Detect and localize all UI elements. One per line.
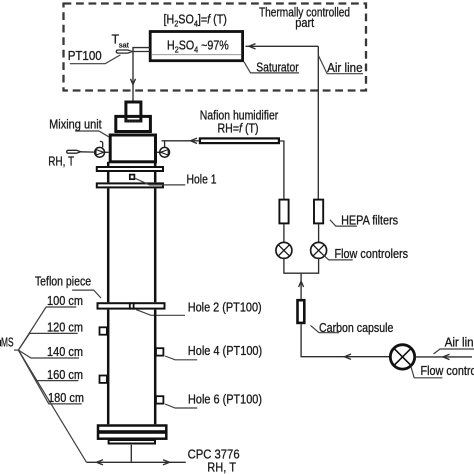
svg-text:Carbon capsule: Carbon capsule — [319, 321, 393, 335]
teflon piece flange (hole 2) — [98, 302, 165, 309]
wire bottom sampling line with arrows — [87, 460, 186, 465]
wire saturator outlet to mixing unit — [131, 48, 151, 101]
svg-text:Hole 6 (PT100): Hole 6 (PT100) — [188, 393, 262, 407]
svg-text:180 cm: 180 cm — [48, 391, 84, 405]
wire air line from right into saturator — [246, 44, 319, 49]
bottom flange assembly — [98, 426, 166, 444]
wire CPC outlet — [130, 445, 132, 463]
label Flow controlers with leader — [322, 247, 408, 261]
svg-text:160 cm: 160 cm — [47, 368, 83, 382]
flow controller 1 (circle-X) — [276, 242, 292, 258]
svg-text:Flow controlers: Flow controlers — [335, 247, 409, 261]
label PT100 with leader — [68, 49, 121, 64]
HEPA filter 2 — [314, 200, 323, 224]
mixing unit top cap — [126, 102, 141, 121]
svg-text:PT100: PT100 — [68, 49, 102, 63]
wire HEPA2 to flow controller 2 — [318, 224, 320, 243]
svg-text:CPC 3776: CPC 3776 — [188, 448, 240, 462]
label HEPA filters with leader — [330, 214, 398, 228]
label Hole 4 (PT100) with leader — [165, 344, 262, 360]
MS fan: vertex and leaders to distance marks — [14, 307, 87, 462]
saturator box — [150, 32, 242, 61]
wire air line inlet (bottom right) — [415, 354, 472, 359]
svg-text:RH, T: RH, T — [48, 155, 74, 169]
hole 4 square (right) — [156, 348, 163, 355]
wire probe stem into saturator — [132, 51, 150, 53]
left port valve circle — [95, 141, 109, 157]
svg-text:MS: MS — [1, 335, 14, 349]
flow controller 2 (circle-X) — [311, 242, 327, 258]
label Flow controlers (bottom) with leader — [411, 364, 474, 378]
label [H2SO4]=f(T) — [164, 13, 227, 29]
svg-text:RH=f (T): RH=f (T) — [218, 122, 259, 136]
svg-text:Saturator: Saturator — [256, 60, 299, 74]
RH,T probe (left) — [67, 150, 95, 153]
wire carbon capsule to main flow controller — [301, 324, 390, 359]
tube walls upper section — [108, 188, 155, 302]
wire air line vertical down to HEPA filter — [317, 46, 319, 198]
svg-text:Nafion humidifier: Nafion humidifier — [200, 109, 278, 123]
svg-text:sat: sat — [119, 40, 130, 49]
svg-text:part: part — [295, 16, 314, 30]
flange 1 (top of tube) — [97, 167, 163, 171]
mixing unit upper box — [116, 116, 151, 131]
tube walls lower section — [108, 310, 155, 425]
right port valve circle — [157, 141, 170, 157]
svg-text:Hole 2 (PT100): Hole 2 (PT100) — [188, 301, 262, 315]
wire merge from flow controllers — [284, 258, 319, 299]
hole 5 square (left) — [100, 376, 107, 383]
tube wall stubs between body and flange1 — [108, 162, 155, 166]
frit mesh strip — [126, 120, 141, 123]
letter fragment at left edge — [0, 340, 1, 347]
main flow controller (circle-X) — [390, 345, 414, 369]
Tsat probe — [116, 50, 132, 53]
svg-text:Flow controlers: Flow controlers — [421, 364, 474, 378]
flange 2 — [97, 183, 163, 187]
svg-text:Air line: Air line — [327, 61, 363, 75]
label H2SO4 ~97% — [167, 39, 229, 55]
label Nafion humidifier — [200, 109, 278, 136]
svg-text:100 cm: 100 cm — [47, 294, 83, 308]
mixing unit body — [110, 135, 155, 162]
carbon capsule — [298, 300, 305, 323]
hole 1 square — [130, 175, 135, 180]
svg-text:Air line: Air line — [445, 336, 474, 350]
svg-text:Mixing unit: Mixing unit — [49, 118, 102, 132]
label CPC 3776 / RH, T — [188, 448, 240, 474]
label Hole 6 (PT100) with leader — [165, 393, 262, 409]
svg-text:Teflon piece: Teflon piece — [35, 274, 91, 288]
label Saturator with leader — [244, 60, 299, 74]
hole 6 square (right) — [156, 396, 163, 403]
HEPA filter 1 — [279, 200, 288, 224]
label Teflon piece with leader — [35, 274, 101, 298]
label Hole 1 with leader — [134, 172, 216, 186]
svg-text:Hole 4 (PT100): Hole 4 (PT100) — [188, 344, 262, 358]
wire humidifier right end down to HEPA filter — [280, 141, 284, 199]
wire humidifier to mixing unit with arrow — [162, 138, 199, 143]
svg-text:120 cm: 120 cm — [47, 321, 83, 335]
label Thermally controlled part — [259, 6, 350, 30]
tube wall stubs between flanges — [108, 172, 155, 182]
wire HEPA1 to flow controller 1 — [283, 224, 285, 243]
hole 3 square (left) — [100, 327, 107, 334]
Nafion humidifier bar — [200, 138, 279, 143]
svg-text:Hole 1: Hole 1 — [187, 172, 217, 186]
label Hole 2 (PT100) with leader — [136, 301, 262, 316]
label Mixing unit with leader — [49, 118, 109, 137]
thermally controlled part dashed box — [64, 4, 367, 91]
label Air line (bottom) with leader — [434, 336, 474, 355]
label Air line (top) with leader — [318, 55, 363, 75]
svg-text:HEPA filters: HEPA filters — [341, 214, 398, 228]
label T sat — [112, 33, 130, 50]
svg-text:140 cm: 140 cm — [47, 345, 83, 359]
svg-text:RH, T: RH, T — [207, 461, 236, 474]
label Carbon capsule with leader — [311, 321, 394, 335]
